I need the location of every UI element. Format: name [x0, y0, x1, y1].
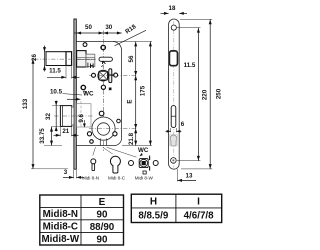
- latch bolt: [46, 52, 66, 66]
- dimension 30: [103, 31, 108, 34]
- dark square pin: [109, 88, 112, 91]
- svg-text:33.75: 33.75: [39, 128, 46, 144]
- latch head: [66, 52, 72, 66]
- svg-text:H: H: [150, 197, 157, 208]
- svg-text:10.5: 10.5: [50, 88, 63, 95]
- svg-text:Midi8-W: Midi8-W: [42, 234, 80, 245]
- dimension 250: [209, 20, 211, 169]
- svg-text:Midi 8-C: Midi 8-C: [108, 176, 126, 181]
- svg-text:4/6/7/8: 4/6/7/8: [184, 210, 215, 221]
- svg-text:11.5: 11.5: [49, 68, 61, 75]
- svg-text:9.6: 9.6: [78, 113, 85, 122]
- thrown position dashed: [80, 101, 82, 128]
- svg-text:8/8.5/9: 8/8.5/9: [138, 210, 169, 221]
- follower square spindle: [98, 70, 109, 81]
- dimension 26: [44, 46, 46, 72]
- hole below follower: [101, 85, 105, 89]
- svg-text:220: 220: [202, 89, 209, 100]
- cylinder cutout: [170, 135, 177, 146]
- spring lever: [109, 69, 112, 83]
- hole right of cylinder: [113, 132, 117, 136]
- lock body outline: [77, 42, 122, 146]
- table E: [40, 195, 124, 245]
- svg-text:21.8: 21.8: [128, 132, 135, 145]
- small dim H: [87, 63, 89, 68]
- dimension 175: [149, 42, 151, 146]
- deadbolt tail: [77, 104, 91, 127]
- dimension 50: [74, 32, 121, 34]
- svg-text:E: E: [127, 99, 134, 103]
- svg-text:250: 250: [216, 88, 223, 99]
- svg-text:133: 133: [22, 98, 29, 109]
- svg-text:56: 56: [128, 55, 135, 62]
- bottom screw hole: [171, 158, 177, 164]
- deadbolt: [60, 106, 71, 127]
- cylinder hole: [92, 117, 115, 140]
- faceplate side view bar: [74, 19, 76, 169]
- WC spindle Midi 8-W: [129, 161, 134, 166]
- svg-text:I: I: [197, 197, 200, 208]
- faceplate front outline: [169, 19, 180, 169]
- hole below-left of cylinder: [90, 140, 94, 144]
- svg-text:21: 21: [62, 128, 69, 135]
- svg-text:50: 50: [85, 24, 92, 31]
- svg-text:E: E: [99, 197, 106, 208]
- svg-text:175: 175: [140, 85, 147, 96]
- svg-text:Midi 8-W: Midi 8-W: [135, 176, 154, 181]
- svg-text:18: 18: [169, 5, 176, 12]
- euro cylinder Midi 8-C: [110, 156, 120, 173]
- svg-text:WC: WC: [138, 147, 149, 154]
- hole right of follower: [114, 73, 118, 77]
- svg-text:32: 32: [45, 113, 52, 120]
- hole left of cylinder: [87, 132, 91, 136]
- table H I: [131, 194, 221, 222]
- svg-text:26: 26: [31, 54, 38, 61]
- svg-text:11.5: 11.5: [184, 62, 196, 69]
- svg-text:30: 30: [105, 24, 112, 31]
- latch centerline: [34, 58, 96, 60]
- svg-text:6: 6: [181, 121, 185, 128]
- deadbolt centerline: [54, 115, 93, 117]
- svg-text:90: 90: [97, 235, 108, 246]
- screw post above cylinder: [99, 111, 104, 116]
- svg-text:90: 90: [97, 209, 108, 220]
- latch cutout: [169, 51, 177, 66]
- svg-text:Midi 8-N: Midi 8-N: [82, 176, 99, 181]
- keyhole Midi 8-N: [91, 159, 96, 164]
- faceplate centerline: [173, 21, 175, 168]
- top screw hole: [171, 25, 176, 30]
- svg-text:13: 13: [186, 172, 193, 179]
- svg-text:88/90: 88/90: [90, 222, 115, 233]
- hole top right of cylinder: [117, 119, 121, 123]
- R18 leader: [115, 30, 147, 46]
- WC hole upper: [81, 85, 85, 89]
- svg-text:3: 3: [64, 169, 68, 176]
- slot: [99, 57, 112, 61]
- svg-text:Midi8-N: Midi8-N: [43, 209, 78, 220]
- svg-text:Midi8-C: Midi8-C: [43, 222, 78, 233]
- hole top-center: [100, 45, 106, 51]
- deadbolt cutout: [171, 106, 176, 128]
- follower centerline: [89, 75, 138, 77]
- leader lines to key variants: [93, 147, 96, 156]
- latch tail in body: [77, 51, 86, 67]
- centerline vertical: [102, 31, 104, 152]
- dimension 220: [197, 28, 199, 161]
- hole left of follower: [92, 73, 96, 77]
- svg-text:H: H: [90, 64, 94, 70]
- extension lines top and bottom: [113, 41, 152, 43]
- cylinder centerline: [89, 128, 138, 130]
- screw hole top-left: [83, 43, 87, 47]
- right-side dimension chain 56 E 21.8: [135, 42, 137, 146]
